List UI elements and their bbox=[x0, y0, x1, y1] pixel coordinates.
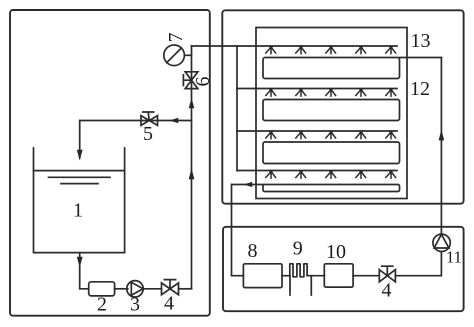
wire: coil return line bbox=[232, 184, 264, 186]
spray nozzle row 4 #2 bbox=[296, 171, 306, 179]
arrow down on outlet bbox=[77, 257, 83, 268]
spray nozzle row 3 #5 bbox=[386, 131, 396, 139]
svg-text:3: 3 bbox=[130, 294, 140, 316]
spray nozzle row 4 #1 bbox=[266, 171, 276, 179]
svg-text:10: 10 bbox=[326, 241, 346, 263]
spray nozzle row 4 #3 bbox=[326, 171, 336, 179]
heater 9 bbox=[290, 264, 307, 277]
spray nozzle row 1 #4 bbox=[356, 46, 366, 54]
pressure gauge 7 bbox=[164, 45, 192, 66]
spray nozzle row 3 #4 bbox=[356, 131, 366, 139]
wire: spray header 4 bbox=[237, 170, 397, 172]
wire: tank outlet down bbox=[80, 253, 89, 289]
valve 4 (left) bbox=[162, 280, 179, 295]
wire: 10 to valve 4 (bottom) bbox=[353, 275, 379, 277]
wire: spray manifold bbox=[236, 46, 238, 171]
pump 11 bbox=[433, 234, 450, 251]
valve 4 (bottom) bbox=[379, 266, 395, 282]
three-way valve 6 bbox=[183, 72, 197, 89]
spray nozzle row 1 #5 bbox=[386, 46, 396, 54]
wire: spray riser bbox=[191, 46, 193, 289]
component 8 bbox=[243, 264, 282, 288]
svg-text:5: 5 bbox=[143, 123, 153, 145]
arrow up on riser (lower) bbox=[189, 168, 195, 179]
wire: 8 to heater 9 bbox=[282, 275, 289, 277]
svg-text:12: 12 bbox=[410, 78, 430, 100]
filter 2 bbox=[89, 282, 115, 296]
wire: pump to valve 4 bbox=[143, 288, 162, 290]
arrow left on return bbox=[244, 182, 253, 187]
spray nozzle row 2 #5 bbox=[386, 89, 396, 97]
heater 9 legs bbox=[290, 276, 311, 295]
spray nozzle row 3 #2 bbox=[296, 131, 306, 139]
svg-text:11: 11 bbox=[446, 248, 462, 267]
spray nozzle row 2 #3 bbox=[326, 89, 336, 97]
chamber 13 bbox=[256, 28, 407, 199]
valve 5 bbox=[141, 112, 158, 125]
left enclosure box bbox=[10, 10, 210, 316]
wire: branch to tank via valve 5 bbox=[80, 120, 192, 122]
svg-text:6: 6 bbox=[192, 77, 214, 87]
svg-text:1: 1 bbox=[73, 200, 83, 222]
coil 12 pass 3 bbox=[263, 142, 400, 164]
svg-text:4: 4 bbox=[382, 280, 392, 302]
arrow up on riser (below valve 6) bbox=[189, 98, 195, 108]
wire: return downpipe to component 8 bbox=[232, 185, 244, 276]
svg-text:9: 9 bbox=[293, 238, 303, 260]
svg-text:2: 2 bbox=[97, 294, 107, 316]
svg-text:13: 13 bbox=[411, 30, 431, 52]
arrow up on right riser bbox=[439, 130, 445, 141]
spray nozzle row 1 #2 bbox=[296, 46, 306, 54]
spray nozzle row 3 #1 bbox=[266, 131, 276, 139]
spray nozzle row 2 #2 bbox=[296, 89, 306, 97]
coil 12 pass 1 bbox=[263, 58, 400, 79]
coil 12 pass 4 bbox=[263, 185, 400, 192]
wire: 9 to 10 bbox=[307, 275, 324, 277]
spray nozzle row 4 #5 bbox=[386, 171, 396, 179]
component 10 bbox=[324, 264, 353, 287]
spray nozzle row 2 #4 bbox=[356, 89, 366, 97]
spray nozzle row 4 #4 bbox=[356, 171, 366, 179]
spray nozzle row 3 #3 bbox=[326, 131, 336, 139]
arrow left toward valve 5 bbox=[170, 118, 179, 124]
svg-text:8: 8 bbox=[248, 240, 258, 262]
wire: coil inlet from right riser bbox=[400, 57, 442, 59]
wire: right riser from pump 11 bbox=[440, 58, 442, 235]
spray nozzle row 1 #3 bbox=[326, 46, 336, 54]
coil 12 pass 2 bbox=[263, 100, 400, 121]
arrow down into tank bbox=[77, 150, 83, 161]
tank water level lines bbox=[34, 171, 125, 184]
wire: spray header 3 bbox=[237, 130, 397, 132]
wire: valve 4 to riser corner bbox=[179, 288, 192, 290]
wire: valve to pump 11 riser bbox=[395, 252, 441, 276]
svg-text:4: 4 bbox=[164, 293, 174, 315]
wire: inlet drop into tank bbox=[79, 121, 81, 159]
wire: filter to pump bbox=[115, 288, 128, 290]
tank 1 bbox=[34, 148, 125, 253]
wire: spray header 1 (from riser) bbox=[192, 45, 398, 47]
pump 3 bbox=[127, 281, 143, 297]
spray nozzle row 1 #1 bbox=[266, 46, 276, 54]
spray nozzle row 2 #1 bbox=[266, 89, 276, 97]
wire: spray header 2 bbox=[237, 88, 397, 90]
bottom-right enclosure box bbox=[223, 227, 464, 311]
svg-text:7: 7 bbox=[165, 33, 187, 43]
top-right enclosure box bbox=[222, 10, 463, 203]
